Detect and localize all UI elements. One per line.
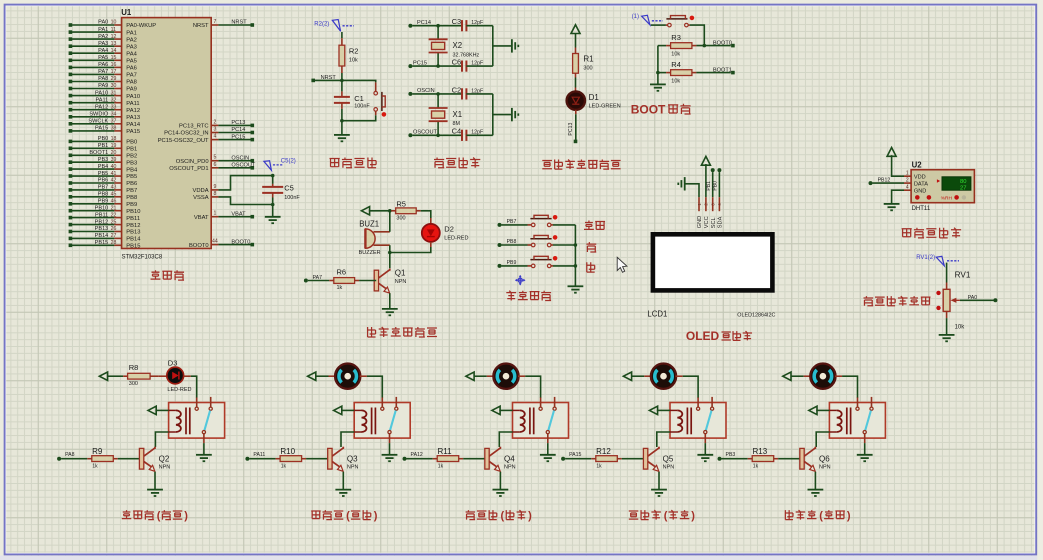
svg-text:300: 300: [129, 381, 138, 387]
svg-text:Q5: Q5: [663, 454, 674, 463]
svg-text:26: 26: [111, 226, 117, 232]
svg-text:PB12: PB12: [95, 219, 109, 225]
svg-text:PA15: PA15: [95, 126, 108, 132]
svg-text:NRST: NRST: [193, 23, 209, 29]
power terminal arrow left coil: [492, 406, 513, 414]
ground: [512, 108, 518, 121]
svg-text:NPN: NPN: [504, 464, 516, 470]
node PA11: [245, 452, 275, 461]
svg-text:PA3: PA3: [126, 44, 137, 50]
svg-text:VSSA: VSSA: [193, 195, 209, 201]
wire to ground: [657, 73, 659, 85]
svg-text:PB8: PB8: [98, 192, 109, 198]
wire motor to relay: [360, 376, 383, 398]
svg-text:NPN: NPN: [663, 464, 675, 470]
svg-text:PB5: PB5: [126, 174, 137, 180]
svg-text:1k: 1k: [281, 464, 287, 470]
power terminal arrow left coil: [334, 406, 355, 414]
svg-text:(: (: [664, 510, 668, 522]
node OSCOUT: [408, 130, 462, 138]
svg-text:OSCOUT: OSCOUT: [231, 163, 256, 169]
wire coil to collector: [341, 432, 354, 447]
wire VDDA to C5: [218, 176, 272, 190]
wire relay to ground: [203, 443, 205, 455]
svg-text:45: 45: [111, 192, 117, 198]
svg-text:41: 41: [111, 171, 117, 177]
svg-text:GND: GND: [697, 216, 703, 228]
svg-text:C2: C2: [452, 85, 462, 94]
svg-text:PA4: PA4: [98, 48, 108, 54]
push button reset: [374, 91, 386, 116]
node BOOT0: [713, 40, 735, 47]
svg-text:PA12: PA12: [126, 108, 140, 114]
svg-text:PA11: PA11: [95, 97, 108, 103]
motor pump: [810, 364, 835, 389]
capacitor C2: [452, 85, 493, 99]
svg-text:PB2: PB2: [126, 154, 137, 160]
svg-text:PB6: PB6: [98, 178, 109, 184]
svg-text:1k: 1k: [337, 285, 343, 291]
resistor R8: [123, 363, 167, 387]
svg-text:LED-RED: LED-RED: [167, 387, 191, 393]
node SWCLK pin 37: [69, 119, 141, 129]
svg-text:D1: D1: [589, 93, 600, 102]
node PC15 pin 4: [158, 134, 254, 144]
ground: [382, 455, 398, 461]
node PC15: [408, 60, 462, 68]
svg-text:PB7: PB7: [126, 188, 137, 194]
node PA0: [960, 295, 998, 303]
node PB8 pin 45: [69, 192, 138, 202]
svg-text:SWDIO: SWDIO: [89, 112, 109, 118]
svg-text:): ): [184, 510, 188, 522]
wire Q1 emitter to ground: [389, 293, 391, 309]
svg-text:5: 5: [213, 155, 216, 161]
svg-text:BUZZER: BUZZER: [359, 250, 381, 256]
node PB9 pin 46: [69, 199, 138, 209]
svg-text:PC15: PC15: [231, 134, 245, 140]
LED D2 LED-RED: [422, 224, 469, 242]
ground: [540, 455, 556, 461]
label 声光报警电路: [368, 327, 437, 337]
svg-text:PB9: PB9: [126, 202, 137, 208]
wire GND to ground: [892, 190, 904, 204]
label 晶振电路: [434, 158, 480, 168]
svg-text:PB1: PB1: [706, 181, 712, 191]
wire D2 to node: [388, 242, 431, 254]
push button PB7 key: [530, 215, 575, 227]
svg-text:%RH: %RH: [941, 195, 953, 201]
capacitor C3: [452, 17, 493, 31]
svg-text:100nF: 100nF: [284, 195, 300, 201]
svg-text:32: 32: [111, 97, 117, 103]
svg-text:): ): [374, 510, 378, 522]
power terminal arrow left coil: [809, 406, 830, 414]
wire button to C1 bottom: [340, 111, 376, 122]
svg-text:Q3: Q3: [347, 454, 358, 463]
label 减: [587, 262, 595, 272]
svg-text:44: 44: [212, 239, 218, 245]
svg-text:13: 13: [111, 41, 117, 47]
svg-text:PA12: PA12: [411, 452, 423, 458]
LED D3 LED-RED: [167, 358, 192, 393]
svg-text:29: 29: [111, 76, 117, 82]
svg-text:2: 2: [906, 177, 909, 183]
svg-text:16: 16: [111, 62, 117, 68]
svg-text:PA11: PA11: [253, 452, 265, 458]
svg-text:PB1: PB1: [126, 147, 137, 153]
ground: [334, 135, 350, 141]
node PA15: [561, 452, 591, 461]
node PA12 pin 33: [69, 104, 140, 114]
svg-text:): ): [528, 510, 532, 522]
node PB3 pin 39: [69, 157, 138, 167]
svg-text:R10: R10: [280, 447, 295, 456]
svg-text:PA3: PA3: [98, 41, 108, 47]
svg-text:7: 7: [213, 19, 216, 25]
node PA9 pin 30: [69, 83, 137, 93]
svg-text:100nF: 100nF: [354, 103, 370, 109]
svg-text:NRST: NRST: [231, 20, 247, 26]
svg-text:38: 38: [111, 126, 117, 132]
node PB6 pin 42: [69, 178, 138, 188]
svg-text:18: 18: [111, 136, 117, 142]
svg-text:PA6: PA6: [98, 62, 108, 68]
node OSCIN: [408, 88, 462, 96]
node PB0 wire SDA: [713, 168, 722, 197]
wire relay to ground: [864, 443, 866, 455]
node PB7 pin 43: [69, 185, 138, 195]
wire motor to relay: [676, 376, 699, 398]
svg-text:VCC: VCC: [704, 216, 710, 228]
node PA6 pin 16: [69, 62, 137, 72]
svg-text:LED-GREEN: LED-GREEN: [589, 104, 621, 110]
node PB14 pin 27: [69, 233, 142, 243]
svg-text:43: 43: [111, 185, 117, 191]
svg-text:PC15-OSC32_OUT: PC15-OSC32_OUT: [158, 138, 209, 144]
LCD1 OLED pins: [697, 197, 724, 228]
wire coil to collector: [816, 432, 829, 447]
svg-text:PA5: PA5: [126, 59, 137, 65]
transistor Q3 NPN: [328, 447, 359, 472]
svg-text:3: 3: [213, 127, 216, 133]
svg-text:PA4: PA4: [126, 51, 137, 57]
resistor R6: [304, 268, 376, 291]
svg-text:VBAT: VBAT: [194, 215, 209, 221]
node PC13 pin 2: [179, 119, 254, 129]
ground: [939, 335, 955, 341]
node PB7: [498, 219, 532, 227]
ground: [147, 490, 163, 496]
svg-text:PB0: PB0: [713, 181, 719, 191]
node PA8 pin 29: [69, 76, 137, 86]
svg-text:VDDA: VDDA: [192, 188, 208, 194]
svg-text:31: 31: [111, 90, 117, 96]
svg-text:DHT11: DHT11: [912, 206, 931, 212]
svg-text:(: (: [346, 510, 350, 522]
svg-text:27: 27: [111, 233, 117, 239]
svg-text:PB6: PB6: [126, 181, 137, 187]
svg-text:22: 22: [111, 212, 117, 218]
svg-text:BOOT: BOOT: [631, 102, 666, 116]
ground: [512, 39, 518, 52]
svg-text:SCL: SCL: [711, 217, 717, 228]
svg-text:U2: U2: [912, 161, 923, 170]
svg-text:PB7: PB7: [507, 219, 517, 225]
transistor Q6 NPN: [800, 447, 831, 472]
wire D3 to relay: [184, 376, 197, 398]
svg-text:PA1: PA1: [98, 27, 108, 33]
svg-text:PB11: PB11: [126, 216, 140, 222]
wire coil to collector: [657, 432, 670, 447]
wire emitter to ground: [658, 472, 660, 490]
svg-text:NPN: NPN: [347, 464, 359, 470]
node VSSA pin 8: [193, 191, 218, 201]
label BOOT电路: [631, 102, 691, 116]
svg-text:R1: R1: [583, 55, 594, 64]
node PB4 pin 40: [69, 164, 138, 174]
node BOOT0 pin 44: [189, 239, 254, 249]
node PB1 wire SCL: [706, 168, 715, 197]
svg-text:PA2: PA2: [126, 37, 137, 43]
ground: [697, 455, 713, 461]
wire emitter to ground: [342, 472, 344, 490]
svg-text:R8: R8: [129, 363, 139, 372]
svg-text:C5(2): C5(2): [281, 159, 296, 165]
svg-text:LCD1: LCD1: [647, 310, 667, 319]
svg-text:32.768KHz: 32.768KHz: [453, 53, 480, 59]
svg-text:OSCIN: OSCIN: [231, 155, 249, 161]
ground: [265, 217, 281, 223]
wire gnd to GND pin: [685, 184, 699, 197]
resistor R5: [390, 199, 431, 223]
wire C5 to ground: [272, 205, 274, 217]
ground: [335, 490, 351, 496]
svg-text:R9: R9: [92, 447, 103, 456]
node PA15 pin 38: [69, 126, 140, 136]
svg-text:46: 46: [111, 199, 117, 205]
svg-text:PB8: PB8: [507, 239, 517, 245]
label 继电器(制冷): [311, 510, 378, 522]
svg-text:U1: U1: [121, 8, 132, 17]
svg-text:D3: D3: [168, 358, 178, 367]
transistor Q4 NPN: [485, 447, 516, 472]
capacitor C6: [452, 58, 493, 72]
svg-text:20: 20: [111, 150, 117, 156]
svg-text:C1: C1: [354, 94, 364, 103]
wire emitter to ground: [499, 472, 501, 490]
label 复位电路: [330, 158, 377, 168]
wire motor to relay: [835, 376, 858, 398]
ground: [884, 204, 900, 210]
node OSCOUT pin 6: [169, 162, 256, 172]
wire VCC: [705, 164, 707, 197]
svg-text:PA5: PA5: [98, 55, 108, 61]
wire right bus: [493, 26, 512, 66]
svg-text:R2: R2: [349, 46, 359, 55]
svg-text:R2(2): R2(2): [314, 21, 329, 27]
svg-text:PC14-OSC32_IN: PC14-OSC32_IN: [164, 131, 208, 137]
svg-text:8M: 8M: [453, 121, 461, 127]
svg-text:10k: 10k: [671, 52, 680, 58]
svg-text:(1): (1): [632, 14, 639, 20]
svg-text:PB4: PB4: [98, 164, 109, 170]
svg-text:PB12: PB12: [126, 223, 140, 229]
resistor R13: [748, 447, 800, 470]
node NRST net: [311, 75, 343, 82]
power terminal C5(2): [264, 159, 296, 171]
resistor R1: [573, 34, 595, 92]
power terminal R2(2): [314, 20, 354, 32]
transistor Q5 NPN: [643, 447, 674, 472]
svg-text:6: 6: [213, 162, 216, 168]
svg-text:(: (: [501, 510, 505, 522]
svg-text:NPN: NPN: [395, 279, 407, 285]
svg-text:Q4: Q4: [504, 454, 515, 463]
junction: [574, 243, 578, 247]
capacitor C4: [452, 127, 493, 141]
svg-text:PC13_RTC: PC13_RTC: [179, 124, 209, 130]
push button PB9 key: [530, 256, 575, 268]
crystal X1: [429, 94, 462, 135]
ground: [493, 490, 509, 496]
power terminal arrow left coil: [148, 406, 169, 414]
origin marker: [515, 275, 526, 286]
resistor R12: [591, 447, 643, 470]
node PC14: [408, 20, 462, 28]
label 独立按键: [506, 291, 551, 301]
svg-text:2: 2: [213, 119, 216, 125]
label OLED显示屏: [686, 329, 752, 343]
node PB13 pin 26: [69, 226, 141, 236]
svg-text:Q6: Q6: [819, 454, 830, 463]
node PB1 pin 19: [69, 143, 138, 153]
svg-text:BOOT0: BOOT0: [189, 243, 209, 249]
svg-text:SDA: SDA: [718, 216, 724, 228]
svg-text:40: 40: [111, 164, 117, 170]
ground: [651, 490, 667, 496]
svg-text:DATA: DATA: [914, 181, 928, 187]
svg-text:PB9: PB9: [98, 199, 109, 205]
motor cooler: [335, 364, 360, 389]
node BOOT1 pin 20: [69, 150, 138, 160]
svg-text:RV1: RV1: [955, 271, 971, 280]
wire to reset button: [342, 80, 376, 91]
wire coil to collector: [499, 432, 512, 447]
svg-text:PA9: PA9: [126, 87, 137, 93]
svg-text:42: 42: [111, 178, 117, 184]
svg-text:11: 11: [111, 27, 116, 33]
svg-text:C5: C5: [284, 183, 294, 192]
label 土壤湿度调节: [864, 296, 931, 306]
svg-text:PB10: PB10: [126, 209, 140, 215]
transistor Q2 NPN: [139, 447, 170, 472]
svg-text:PA0-WKUP: PA0-WKUP: [126, 23, 156, 29]
resistor R9: [87, 447, 139, 470]
svg-text:PC13: PC13: [231, 120, 245, 126]
svg-text:STM32F103C8: STM32F103C8: [122, 255, 163, 261]
node PA0 pin 10: [69, 20, 157, 30]
svg-text:Q2: Q2: [159, 454, 170, 463]
svg-text:PA15: PA15: [126, 129, 140, 135]
node PA7 pin 17: [69, 69, 137, 79]
svg-text:PA10: PA10: [95, 90, 108, 96]
svg-text:R12: R12: [596, 447, 611, 456]
node PA12: [403, 452, 433, 461]
potentiometer RV1: [936, 263, 971, 335]
node PA3 pin 13: [69, 41, 137, 51]
wire relay to ground: [389, 443, 391, 455]
wire relay to ground: [704, 443, 706, 455]
svg-text:): ): [691, 510, 695, 522]
op-amp LCD1 OLED12864I2C display: [647, 234, 775, 318]
svg-text:300: 300: [396, 215, 405, 221]
svg-text:R4: R4: [671, 60, 681, 69]
svg-text:PA6: PA6: [126, 66, 137, 72]
node PA8: [57, 452, 87, 461]
svg-text:PA10: PA10: [126, 94, 140, 100]
svg-text:PA15: PA15: [569, 452, 581, 458]
relay pump: [829, 397, 885, 443]
svg-text:OSCIN_PD0: OSCIN_PD0: [176, 159, 209, 165]
power terminal arrow left: [99, 372, 123, 380]
svg-text:PB8: PB8: [126, 195, 137, 201]
svg-text:PB13: PB13: [95, 226, 109, 232]
motor humidifier: [493, 364, 518, 389]
svg-text:SWCLK: SWCLK: [88, 119, 108, 125]
node PA10 pin 31: [69, 90, 140, 100]
label 加: [586, 242, 596, 252]
wire coil to collector: [155, 432, 168, 447]
relay heater: [169, 397, 225, 443]
svg-text:17: 17: [111, 69, 117, 75]
svg-text:PA12: PA12: [95, 104, 108, 110]
node PA4 pin 14: [69, 48, 138, 58]
svg-text:9: 9: [213, 184, 216, 190]
svg-text:33: 33: [111, 104, 117, 110]
ground (left of OLED): [678, 177, 684, 190]
resistor R4: [658, 60, 731, 85]
wire R3-R4 bus: [656, 46, 660, 75]
svg-text:PA14: PA14: [126, 122, 141, 128]
node VBAT pin 1: [194, 211, 254, 221]
svg-text:80: 80: [960, 179, 966, 185]
svg-text:R5: R5: [396, 199, 406, 208]
svg-text:34: 34: [111, 112, 117, 118]
op-amp U2 DHT11: [904, 161, 974, 213]
resistor R10: [276, 447, 328, 470]
resistor R3: [658, 33, 731, 58]
svg-text:C3: C3: [452, 17, 462, 26]
svg-text:RV1(2): RV1(2): [916, 255, 935, 261]
op-amp U1 body STM32F103C8: [121, 8, 211, 260]
svg-text:PB5: PB5: [98, 171, 109, 177]
svg-text:R13: R13: [753, 447, 768, 456]
label 继电器(加湿): [466, 510, 532, 522]
svg-text:PA8: PA8: [98, 76, 108, 82]
wire C1 to ground: [341, 121, 343, 135]
ground: [650, 84, 666, 90]
svg-text:NPN: NPN: [819, 464, 831, 470]
svg-text:OLED12864I2C: OLED12864I2C: [737, 312, 775, 318]
svg-text:1k: 1k: [596, 464, 602, 470]
node PB0 pin 18: [69, 136, 138, 146]
resistor R2: [339, 32, 358, 80]
node OSCIN pin 5: [176, 155, 254, 165]
ground: [382, 309, 398, 315]
node PA11 pin 32: [69, 97, 140, 107]
svg-text:PA7: PA7: [126, 73, 137, 79]
